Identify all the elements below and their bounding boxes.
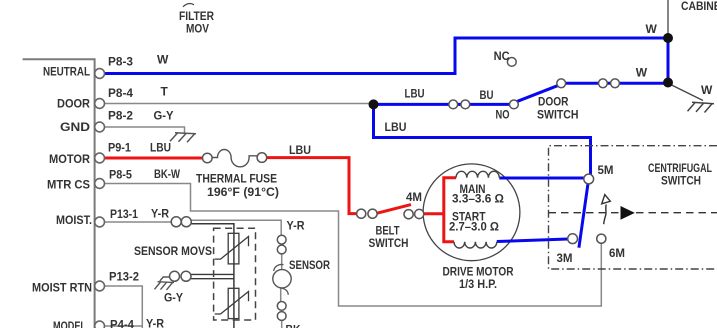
svg-text:3.3–3.6 Ω: 3.3–3.6 Ω [452, 192, 504, 206]
svg-text:W: W [636, 66, 648, 80]
terminal circle NEUTRAL P8-3 [95, 69, 105, 79]
svg-text:SENSOR MOVS: SENSOR MOVS [134, 244, 212, 258]
svg-text:BK-W: BK-W [154, 167, 181, 181]
sensor terminal circles [277, 235, 286, 320]
svg-text:BU: BU [480, 88, 494, 102]
MOV RV1 arrow [215, 237, 249, 260]
terminal circle MOIST. P13-1 [95, 217, 105, 227]
terminal circle MTR CS P8-5 [95, 179, 105, 189]
svg-text:LBU: LBU [405, 87, 425, 101]
connector pair (G-Y moist rtn) [170, 271, 180, 281]
svg-text:NC: NC [494, 49, 510, 63]
svg-text:3M: 3M [557, 251, 573, 265]
junction dot cabinet lower [663, 78, 673, 88]
svg-text:MOIST.: MOIST. [56, 213, 92, 227]
svg-text:MOV: MOV [186, 22, 209, 36]
junction dot door [369, 99, 379, 109]
wire MAIN to 5M (blue) [499, 177, 584, 180]
svg-text:P8-2: P8-2 [108, 109, 133, 123]
ground chassis symbol (GND) [170, 133, 196, 143]
thermal fuse terminal right [257, 153, 267, 163]
wire door switch arm (blue) [517, 85, 559, 101]
wire belt switch arm (red) [377, 205, 412, 214]
svg-text:SWITCH: SWITCH [369, 236, 409, 250]
svg-text:P8-3: P8-3 [108, 55, 133, 69]
centrifugal actuator arrow [604, 205, 607, 225]
terminal circle MOTOR P9-1 [95, 153, 105, 163]
wire sensor string segments [281, 254, 282, 328]
wire START to 3M (blue) [497, 239, 568, 242]
svg-text:NEUTRAL: NEUTRAL [43, 65, 90, 79]
wire G-Y link to MOV string [191, 274, 234, 278]
wire LBU fuse to belt switch (red) [266, 158, 357, 214]
ground chassis symbol (W right) [688, 102, 715, 112]
wire LBU motor (red) [104, 157, 203, 160]
svg-text:SWITCH: SWITCH [661, 174, 701, 188]
svg-text:Y-R: Y-R [287, 219, 305, 233]
svg-text:W: W [157, 53, 169, 67]
svg-text:Y-R: Y-R [151, 207, 169, 221]
door switch arm pivot [557, 79, 566, 88]
wire BK-W (MTR CS P8-5 to 6M) [104, 184, 601, 307]
svg-text:DOOR: DOOR [538, 95, 569, 109]
svg-text:P8-4: P8-4 [108, 86, 133, 100]
svg-text:SWITCH: SWITCH [537, 108, 579, 122]
connector pair (Y-R moist) [171, 217, 181, 227]
centrifugal switch axis dashed [549, 212, 717, 214]
label FILTER MOV [183, 4, 194, 7]
svg-text:Y-R: Y-R [146, 317, 164, 328]
terminal circle MOIST RTN P13-2 [95, 281, 105, 291]
svg-text:MOIST RTN: MOIST RTN [32, 281, 92, 295]
sensor body circle [273, 270, 291, 288]
sensor arc [274, 264, 289, 294]
thermal fuse F1 element [212, 150, 257, 167]
svg-text:W: W [646, 22, 658, 36]
svg-text:LBU: LBU [150, 141, 171, 155]
wire MOIST RTN P13-2 [104, 286, 142, 328]
junction dot cabinet top [663, 33, 673, 43]
wire W door switch to cabinet (blue) [561, 82, 668, 85]
centrifugal contact 5M [584, 174, 594, 184]
wire LBU drop to 5M (blue) [374, 104, 591, 175]
svg-text:BK: BK [286, 323, 301, 328]
svg-text:GND: GND [60, 120, 90, 134]
svg-text:2.7–3.0 Ω: 2.7–3.0 Ω [449, 220, 499, 234]
START winding coil [454, 242, 497, 248]
svg-text:MODEL: MODEL [53, 319, 86, 328]
connector pair (LBU door) [449, 100, 458, 109]
door switch contact NO [510, 100, 519, 109]
svg-text:P4-4: P4-4 [110, 318, 134, 328]
thermal fuse terminal left [203, 153, 213, 163]
centrifugal switch dash-dot box [549, 146, 717, 269]
MOV RV2 body [228, 288, 239, 318]
centrifugal contact 3M [568, 234, 578, 244]
svg-text:MTR CS: MTR CS [47, 178, 90, 192]
svg-text:5M: 5M [598, 163, 614, 177]
svg-text:T: T [161, 85, 169, 99]
svg-text:P8-5: P8-5 [109, 168, 132, 182]
svg-text:6M: 6M [609, 246, 625, 260]
sensor MOVs dashed box [214, 228, 256, 320]
svg-text:W: W [701, 83, 713, 97]
svg-text:P13-1: P13-1 [110, 207, 138, 221]
ground stub (G-Y) [160, 277, 171, 281]
centrifugal axis arrow [621, 206, 635, 220]
wire motor winding bracket (red) [444, 178, 456, 242]
drive motor M1 body [423, 164, 520, 261]
connector block P8/P9/P13 outline [23, 59, 95, 328]
MOV RV1 body [228, 233, 239, 264]
wire T (DOOR P8-4 to junction) [104, 103, 369, 105]
MOV RV2 arrow [215, 292, 249, 315]
centrifugal contact 6M [597, 234, 606, 243]
wire G-Y (GND P8-2 to chassis) [104, 127, 185, 133]
wire 4M to motor bracket (red) [423, 212, 443, 215]
wire MODEL P4-4 [104, 325, 142, 327]
wire W to right chassis ground [670, 84, 704, 101]
wire MOV string (dark) [191, 224, 234, 328]
connector pair (W door) [599, 79, 608, 88]
svg-text:1/3 H.P.: 1/3 H.P. [459, 277, 497, 291]
svg-text:LBU: LBU [289, 143, 311, 157]
wire W neutral (blue) [104, 38, 668, 83]
svg-text:LBU: LBU [385, 120, 407, 134]
terminal circle DOOR P8-4 [95, 99, 105, 109]
belt switch contact pair left [357, 209, 366, 218]
wire centrifugal switch arm 5M-3M (blue) [579, 184, 588, 248]
terminal circle MODEL P4-4 [95, 321, 105, 328]
svg-text:G-Y: G-Y [164, 291, 183, 305]
MAIN winding coil [456, 171, 499, 177]
ground chassis symbol (G-Y) [155, 282, 175, 290]
svg-text:MOTOR: MOTOR [49, 152, 90, 166]
wire Y-R (MOIST. P13-1 to sensor) [104, 220, 281, 235]
door switch contact NC [507, 58, 516, 67]
svg-text:4M: 4M [406, 190, 422, 204]
svg-text:CABINET: CABINET [681, 0, 717, 13]
svg-text:P9-1: P9-1 [108, 141, 131, 155]
belt switch contact pair 4M [404, 210, 413, 219]
svg-text:NO: NO [496, 108, 510, 122]
svg-text:G-Y: G-Y [154, 109, 174, 123]
svg-text:SENSOR: SENSOR [289, 258, 330, 272]
svg-text:196°F (91°C): 196°F (91°C) [207, 185, 279, 199]
svg-text:DOOR: DOOR [57, 97, 90, 111]
cabinet line [667, 0, 669, 38]
terminal circle GND P8-2 [95, 122, 105, 132]
wire LBU/BU door (blue) [374, 103, 510, 106]
svg-text:P13-2: P13-2 [109, 270, 139, 284]
svg-text:THERMAL FUSE: THERMAL FUSE [196, 172, 277, 186]
